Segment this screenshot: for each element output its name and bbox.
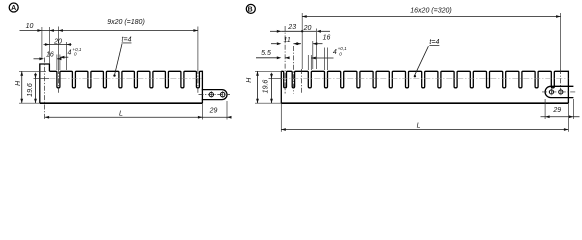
svg-text:L: L bbox=[119, 110, 123, 117]
svg-text:+0,1: +0,1 bbox=[338, 46, 348, 51]
rack B left end face bbox=[280, 71, 282, 103]
svg-text:4: 4 bbox=[333, 49, 337, 56]
svg-text:19.6: 19.6 bbox=[27, 83, 34, 97]
svg-text:5.5: 5.5 bbox=[261, 50, 271, 57]
svg-text:16: 16 bbox=[46, 51, 54, 58]
svg-text:B: B bbox=[248, 6, 253, 13]
svg-text:0: 0 bbox=[339, 51, 342, 56]
rack A bottom edge bbox=[40, 102, 203, 104]
tab B holes bbox=[549, 90, 553, 94]
svg-text:A: A bbox=[11, 5, 16, 12]
rack A pitch line bbox=[49, 77, 202, 79]
svg-text:16x20 (=320): 16x20 (=320) bbox=[410, 8, 451, 15]
rack A mounting tab bbox=[202, 90, 227, 100]
view label A bbox=[9, 3, 18, 12]
svg-text:0: 0 bbox=[74, 52, 77, 57]
svg-text:10: 10 bbox=[26, 23, 34, 30]
svg-text:11: 11 bbox=[284, 37, 291, 44]
svg-text:23: 23 bbox=[287, 24, 296, 31]
rack A left end block bbox=[40, 64, 50, 103]
rack B toothed outline bbox=[281, 71, 568, 103]
svg-text:4: 4 bbox=[67, 50, 71, 57]
tab B centerlines bbox=[542, 91, 577, 93]
svg-text:9x20 (=180): 9x20 (=180) bbox=[107, 19, 145, 26]
16x20 ext lines B bbox=[301, 13, 303, 69]
svg-text:L: L bbox=[417, 122, 421, 129]
svg-text:20: 20 bbox=[303, 25, 312, 32]
tab A holes bbox=[209, 92, 213, 96]
rack B bottom edge bbox=[281, 102, 568, 104]
rack A block centerline bbox=[44, 58, 46, 120]
rack B mounting tab bbox=[545, 86, 573, 97]
svg-text:29: 29 bbox=[552, 107, 561, 114]
slot A centerline B bbox=[284, 26, 286, 94]
rack B pitch line bbox=[281, 77, 568, 79]
svg-text:29: 29 bbox=[209, 108, 218, 115]
svg-text:t=4: t=4 bbox=[122, 37, 132, 44]
svg-text:16: 16 bbox=[323, 35, 331, 42]
slot B centerline B bbox=[292, 46, 294, 94]
tab A centerlines bbox=[199, 94, 231, 96]
svg-text:19.6: 19.6 bbox=[262, 80, 269, 94]
view label B bbox=[246, 4, 255, 13]
svg-text:t=4: t=4 bbox=[429, 39, 439, 46]
slot centerlines A first/last bbox=[57, 27, 59, 70]
rack A toothed outline bbox=[49, 71, 202, 103]
